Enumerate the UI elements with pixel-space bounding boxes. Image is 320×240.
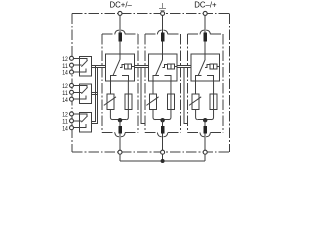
svg-text:14: 14 (62, 70, 68, 77)
svg-text:DC–/+: DC–/+ (194, 0, 217, 9)
svg-text:DC+/–: DC+/– (110, 0, 133, 9)
svg-text:14: 14 (62, 97, 68, 104)
svg-text:14: 14 (62, 125, 68, 132)
